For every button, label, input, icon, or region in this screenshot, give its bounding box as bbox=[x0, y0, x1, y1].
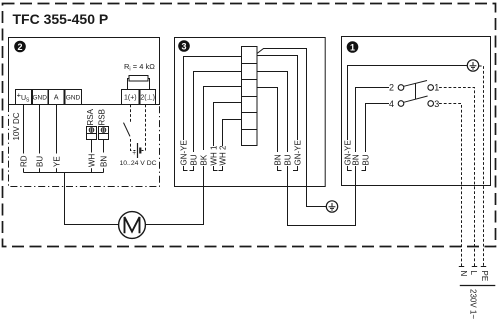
svg-text:4: 4 bbox=[389, 99, 394, 109]
svg-text:PE: PE bbox=[480, 271, 489, 282]
svg-text:A: A bbox=[54, 95, 59, 102]
svg-text:BU: BU bbox=[284, 154, 293, 165]
svg-text:GN-YE: GN-YE bbox=[180, 140, 189, 165]
svg-text:N: N bbox=[459, 271, 468, 277]
svg-text:WH: WH bbox=[88, 153, 97, 167]
svg-text:3: 3 bbox=[181, 41, 186, 51]
svg-text:BK: BK bbox=[200, 154, 209, 165]
svg-text:BU: BU bbox=[36, 156, 45, 167]
svg-text:Ri = 4 kΩ: Ri = 4 kΩ bbox=[124, 62, 155, 73]
svg-text:1(+): 1(+) bbox=[124, 95, 137, 102]
svg-text:YE: YE bbox=[53, 156, 62, 167]
svg-text:GND: GND bbox=[66, 95, 81, 102]
svg-text:TFC 355-450 P: TFC 355-450 P bbox=[13, 11, 109, 27]
svg-text:WH 1: WH 1 bbox=[210, 145, 219, 166]
svg-text:2: 2 bbox=[389, 83, 394, 93]
svg-text:BN: BN bbox=[352, 154, 361, 165]
svg-text:RD: RD bbox=[20, 155, 29, 167]
svg-text:GN-YE: GN-YE bbox=[294, 140, 303, 165]
svg-text:10V DC: 10V DC bbox=[12, 112, 21, 140]
svg-text:L: L bbox=[469, 271, 478, 276]
svg-text:230V 1~: 230V 1~ bbox=[469, 289, 478, 319]
svg-text:WH 2: WH 2 bbox=[219, 145, 228, 166]
svg-text:+: + bbox=[132, 150, 136, 157]
svg-text:2(⊥): 2(⊥) bbox=[140, 95, 155, 102]
svg-text:1: 1 bbox=[350, 42, 355, 52]
svg-text:3: 3 bbox=[434, 99, 439, 109]
svg-text:GND: GND bbox=[32, 95, 47, 102]
svg-text:BU: BU bbox=[362, 154, 371, 165]
svg-text:BN: BN bbox=[274, 154, 283, 165]
svg-text:RSA: RSA bbox=[86, 108, 95, 125]
svg-text:RSB: RSB bbox=[98, 109, 107, 125]
svg-text:10..24 V DC: 10..24 V DC bbox=[119, 160, 156, 167]
svg-text:2: 2 bbox=[17, 42, 22, 52]
svg-text:BU: BU bbox=[190, 154, 199, 165]
svg-text:1: 1 bbox=[434, 83, 439, 93]
svg-text:BN: BN bbox=[100, 156, 109, 167]
